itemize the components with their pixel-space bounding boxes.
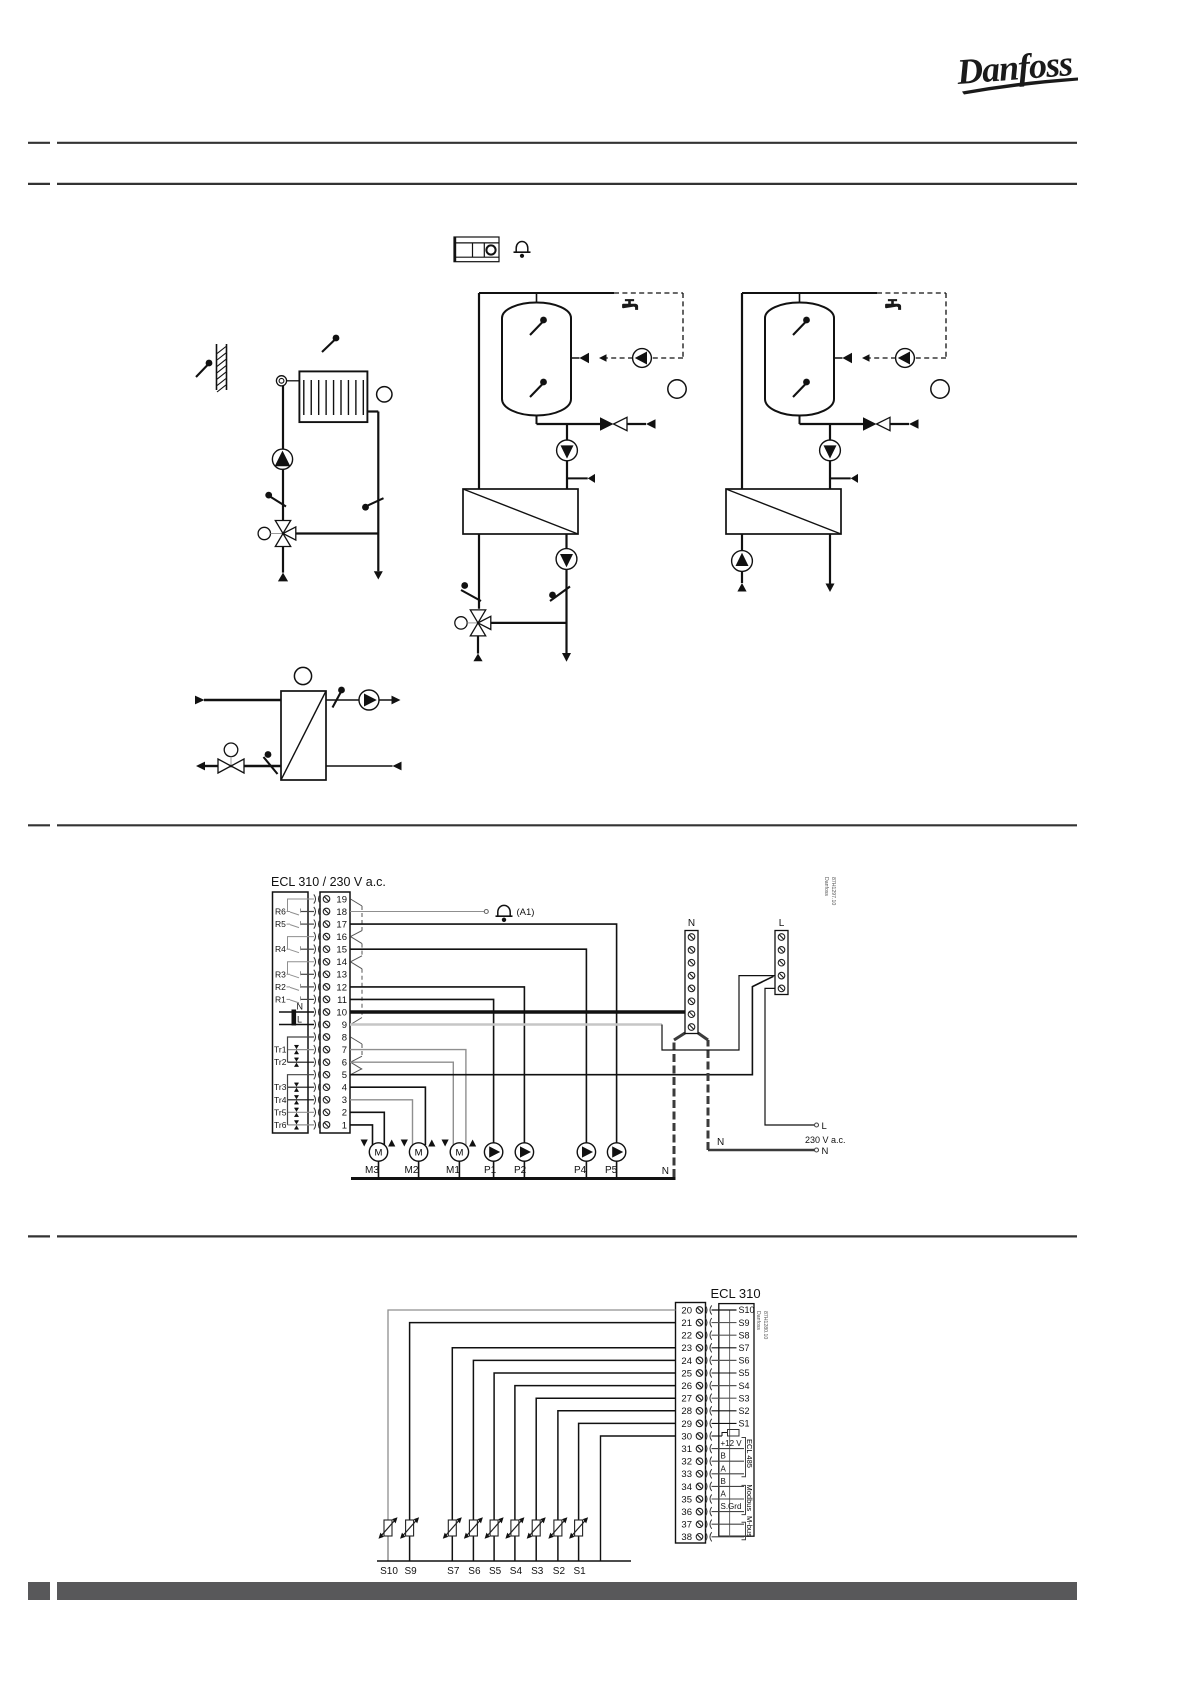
motorized 2-way valve <box>224 743 238 757</box>
sensor S7 (Pt1000) <box>451 1536 453 1561</box>
svg-text:11: 11 <box>337 995 347 1006</box>
svg-text:1: 1 <box>342 1120 347 1131</box>
sensor input S4 <box>712 1385 737 1387</box>
bus terminal 34 <box>712 1485 745 1487</box>
alarm bell icon <box>516 242 528 252</box>
wire terminal 7 to M1 <box>350 1050 466 1145</box>
flow arrow up <box>278 573 288 582</box>
svg-text:S3: S3 <box>531 1566 544 1577</box>
svg-text:Tr3: Tr3 <box>274 1082 287 1092</box>
return arrow <box>393 762 402 771</box>
primary return pipe <box>218 765 281 767</box>
motorized 3-way valve actuator <box>455 617 467 629</box>
temperature sensor <box>540 317 547 324</box>
branch arrow <box>830 477 851 479</box>
svg-text:87H1280.10: 87H1280.10 <box>762 1311 768 1339</box>
wire terminal 26 to sensor S4 <box>515 1386 676 1520</box>
terminal 18 <box>323 908 330 915</box>
terminal 10 <box>323 1009 330 1016</box>
svg-text:R2: R2 <box>275 982 286 992</box>
svg-text:S9: S9 <box>739 1318 750 1328</box>
terminal 14 <box>323 959 330 966</box>
svg-text:N: N <box>717 1137 724 1148</box>
return pipe down <box>565 534 567 653</box>
tank bottom pipe <box>799 416 801 425</box>
wire common R6 <box>288 899 315 912</box>
svg-text:R5: R5 <box>275 919 286 929</box>
svg-text:L: L <box>779 918 785 929</box>
wire terminal 3 to M2 <box>350 1100 413 1145</box>
svg-text:24: 24 <box>681 1356 692 1367</box>
service jumper terminal 30 <box>712 1435 723 1437</box>
svg-text:28: 28 <box>681 1406 692 1417</box>
N cable to mains N <box>707 1040 710 1150</box>
wire terminal 17 to P5 <box>350 924 617 1144</box>
3-way valve <box>470 610 485 623</box>
svg-text:N: N <box>688 918 695 929</box>
svg-text:23: 23 <box>681 1343 692 1354</box>
cold water supply pipe <box>741 293 743 490</box>
wire terminal 23 to sensor S7 <box>452 1348 675 1520</box>
svg-text:S4: S4 <box>739 1381 750 1391</box>
temperature sensor <box>338 687 345 694</box>
charging pump <box>820 440 841 461</box>
dashed arrow <box>599 354 607 362</box>
svg-text:37: 37 <box>681 1520 692 1531</box>
svg-text:+12 V: +12 V <box>721 1439 743 1448</box>
svg-text:R6: R6 <box>275 907 286 917</box>
wire terminal 27 to sensor S3 <box>536 1398 675 1520</box>
svg-text:S2: S2 <box>739 1406 750 1416</box>
check valve <box>600 417 614 430</box>
svg-text:Danfoss: Danfoss <box>823 877 829 896</box>
pipe to heat exchanger <box>566 424 568 490</box>
terminal 11 <box>323 996 330 1003</box>
flow arrow down <box>562 653 571 662</box>
horizontal rule 2 <box>28 183 1077 185</box>
pump P5 <box>607 1143 625 1161</box>
air vent <box>276 376 286 386</box>
N bus bar <box>351 1177 676 1180</box>
heat exchanger <box>726 489 841 534</box>
wire L-in from terminal 9 path to L rail <box>662 976 775 1050</box>
pipe below valve <box>477 636 479 654</box>
wire terminal 5 to L rail <box>350 976 774 1074</box>
svg-text:S6: S6 <box>739 1356 750 1366</box>
flow arrow down <box>826 584 835 593</box>
pipe below valve <box>282 547 284 573</box>
svg-text:36: 36 <box>681 1507 692 1518</box>
svg-text:S5: S5 <box>739 1368 750 1378</box>
horizontal rule 3 <box>28 824 1077 826</box>
wire terminal 29 to sensor S1 <box>579 1423 676 1520</box>
N cable to N rail <box>673 1040 676 1177</box>
svg-text:Modbus: Modbus <box>745 1485 754 1512</box>
svg-text:25: 25 <box>681 1368 692 1379</box>
wire terminal 10 (N) to N rail <box>350 1010 685 1014</box>
svg-text:M: M <box>455 1148 463 1159</box>
wire terminal 25 to sensor S5 <box>494 1373 675 1520</box>
controller inner box <box>719 1304 754 1537</box>
Modbus bracket <box>742 1485 746 1514</box>
svg-text:3: 3 <box>342 1095 347 1106</box>
svg-text:S8: S8 <box>739 1330 750 1340</box>
svg-text:15: 15 <box>336 945 347 956</box>
terminal strip 1-19 <box>320 892 350 1133</box>
actuator M3 <box>369 1143 387 1161</box>
svg-text:S.Grd: S.Grd <box>721 1502 742 1511</box>
terminal 5 <box>323 1071 330 1078</box>
svg-text:P4: P4 <box>574 1165 587 1176</box>
circulation pump <box>633 349 652 368</box>
svg-text:S1: S1 <box>739 1419 750 1429</box>
actuator M1 <box>450 1143 468 1161</box>
svg-text:30: 30 <box>681 1431 692 1442</box>
tank top pipe <box>536 293 538 303</box>
secondary flow pipe <box>326 699 392 701</box>
svg-text:ECL 310 / 230 V a.c.: ECL 310 / 230 V a.c. <box>271 875 386 889</box>
svg-text:21: 21 <box>681 1318 692 1329</box>
svg-text:M: M <box>415 1148 423 1159</box>
svg-text:S10: S10 <box>739 1305 755 1315</box>
temperature sensor <box>803 317 810 324</box>
wire common R4 <box>288 937 315 950</box>
terminal 17 <box>323 921 330 928</box>
M-bus bracket <box>742 1522 746 1540</box>
svg-text:31: 31 <box>681 1444 692 1455</box>
outdoor temperature sensor S1 <box>206 360 213 367</box>
temperature sensor <box>540 379 547 386</box>
ECL 485 bracket <box>742 1438 746 1477</box>
sensor input S10 <box>712 1309 737 1311</box>
svg-text:5: 5 <box>342 1070 347 1081</box>
sensor common line <box>729 1310 731 1537</box>
radiator <box>299 371 367 422</box>
svg-text:13: 13 <box>336 970 347 981</box>
terminal 7 <box>323 1046 330 1053</box>
svg-text:S2: S2 <box>553 1566 566 1577</box>
room temperature sensor <box>333 335 340 342</box>
svg-text:M3: M3 <box>365 1165 379 1176</box>
tap (DHW draw-off) <box>885 299 901 310</box>
pipe <box>491 622 567 624</box>
temperature sensor <box>362 504 369 511</box>
svg-text:S1: S1 <box>573 1566 586 1577</box>
primary supply below HX <box>741 534 743 551</box>
svg-text:N: N <box>822 1146 829 1157</box>
sensor input S6 <box>712 1359 737 1361</box>
3-way valve <box>275 521 290 534</box>
svg-text:87H1297.10: 87H1297.10 <box>830 877 836 905</box>
dashed DHW circulation line <box>614 292 683 294</box>
svg-text:12: 12 <box>336 982 347 993</box>
svg-text:N: N <box>297 1002 304 1012</box>
svg-text:14: 14 <box>336 957 347 968</box>
svg-text:6: 6 <box>342 1058 347 1069</box>
wire terminal 6 to M1 <box>350 1062 453 1145</box>
wire common R3 <box>288 962 315 975</box>
primary pump <box>732 551 753 572</box>
pipe to heat exchanger <box>829 424 831 490</box>
svg-text:R3: R3 <box>275 969 286 979</box>
sensor common bus <box>377 1560 631 1562</box>
terminal 6 <box>323 1059 330 1066</box>
cold water inlet arrow <box>627 423 646 425</box>
svg-text:Tr1: Tr1 <box>274 1045 287 1055</box>
terminal 12 <box>323 984 330 991</box>
svg-text:Tr4: Tr4 <box>274 1095 287 1105</box>
svg-text:22: 22 <box>681 1331 692 1342</box>
sensor S4 (Pt1000) <box>514 1536 516 1561</box>
pump <box>556 549 577 570</box>
bus terminal 31 <box>712 1448 745 1450</box>
wire terminal 24 to sensor S6 <box>473 1360 675 1520</box>
controller circle <box>294 667 311 684</box>
svg-text:29: 29 <box>681 1419 692 1430</box>
sensor S6 (Pt1000) <box>472 1536 474 1561</box>
svg-text:S9: S9 <box>404 1566 417 1577</box>
svg-text:9: 9 <box>342 1020 347 1031</box>
wire terminal 4 to M2 <box>350 1087 425 1145</box>
svg-text:16: 16 <box>336 932 347 943</box>
pump P1 <box>484 1143 502 1161</box>
top pipe <box>479 292 614 294</box>
terminal 13 <box>323 971 330 978</box>
svg-text:230 V a.c.: 230 V a.c. <box>805 1135 846 1145</box>
sensor S5 (Pt1000) <box>493 1536 495 1561</box>
wire terminal 28 to sensor S2 <box>558 1411 676 1520</box>
svg-text:M2: M2 <box>405 1165 419 1176</box>
motorized 3-way valve actuator <box>258 527 270 539</box>
outside wall (hatched) <box>216 344 218 390</box>
svg-text:17: 17 <box>336 920 347 931</box>
svg-text:R1: R1 <box>275 994 286 1004</box>
svg-text:Tr5: Tr5 <box>274 1107 287 1117</box>
tap (DHW draw-off) <box>622 299 638 310</box>
heat exchanger <box>463 489 578 534</box>
return pipe <box>367 410 378 412</box>
svg-text:M: M <box>375 1148 383 1159</box>
svg-text:4: 4 <box>342 1083 347 1094</box>
svg-text:B: B <box>721 1477 726 1486</box>
sensor S10 (Pt1000) <box>387 1536 389 1561</box>
svg-text:(A1): (A1) <box>517 907 535 918</box>
svg-text:A: A <box>721 1490 727 1499</box>
dashed arrow <box>862 354 870 362</box>
sensor input S7 <box>712 1347 737 1349</box>
svg-text:B: B <box>721 1452 726 1461</box>
secondary pump <box>359 690 379 710</box>
ECL controller icon <box>454 237 499 262</box>
sensor S1 (Pt1000) <box>578 1536 580 1561</box>
svg-text:L: L <box>822 1121 827 1132</box>
temperature sensor <box>265 492 272 499</box>
bus terminal 38 <box>712 1536 745 1538</box>
wire terminal 30 to sensor common bus <box>601 1436 676 1561</box>
flow arrow right <box>392 696 401 705</box>
Danfoss logo <box>954 43 1078 94</box>
flow arrow up <box>473 654 482 662</box>
sensor input S9 <box>712 1322 737 1324</box>
sensor input S1 <box>712 1422 737 1424</box>
wire terminal 15 to P4 <box>350 949 586 1144</box>
svg-text:S3: S3 <box>739 1393 750 1403</box>
tank bottom pipe <box>536 416 538 425</box>
svg-text:P1: P1 <box>484 1165 497 1176</box>
svg-text:8: 8 <box>342 1032 347 1043</box>
svg-text:Tr2: Tr2 <box>274 1057 287 1067</box>
terminal 15 <box>323 946 330 953</box>
district heating supply below HX <box>478 534 480 609</box>
svg-text:S7: S7 <box>447 1566 460 1577</box>
controller circle <box>931 380 949 398</box>
horizontal rule 1 <box>28 142 1077 144</box>
sensor S2 (Pt1000) <box>557 1536 559 1561</box>
supply pipe <box>282 386 284 450</box>
svg-text:S10: S10 <box>380 1566 398 1577</box>
terminal 8 <box>323 1034 330 1041</box>
svg-text:Tr6: Tr6 <box>274 1120 287 1130</box>
primary supply arrow <box>195 696 205 705</box>
terminal 2 <box>323 1109 330 1116</box>
wire terminal 12 to P2 <box>350 987 524 1144</box>
svg-text:M-bus: M-bus <box>745 1516 754 1537</box>
secondary return pipe <box>326 765 393 767</box>
wire L rail to mains L <box>765 988 814 1125</box>
actuator M2 <box>409 1143 427 1161</box>
wire terminal 18 to alarm bell A1 <box>350 911 484 913</box>
cold water supply pipe <box>478 293 480 490</box>
terminal 19 <box>323 896 330 903</box>
terminal 16 <box>323 933 330 940</box>
top pipe <box>742 292 877 294</box>
wire <box>282 469 284 520</box>
footer bar <box>28 1582 50 1600</box>
svg-text:Danfoss: Danfoss <box>755 1311 761 1330</box>
bus terminal 35 <box>712 1498 745 1500</box>
L rail terminal strip <box>775 931 788 995</box>
triac common brackets <box>288 1037 315 1062</box>
cold water inlet arrow <box>890 423 909 425</box>
svg-text:2: 2 <box>342 1108 347 1119</box>
controller internal block <box>273 892 309 1133</box>
pump P2 <box>515 1143 533 1161</box>
dashed DHW circulation line <box>877 292 946 294</box>
wire terminal 1 to M3 <box>350 1125 373 1145</box>
horizontal rule 4 <box>28 1235 1077 1237</box>
terminal 4 <box>323 1084 330 1091</box>
bus terminal 37 <box>712 1523 745 1525</box>
svg-text:S7: S7 <box>739 1343 750 1353</box>
terminal strip 20-38 <box>676 1303 706 1544</box>
terminal 3 <box>323 1097 330 1104</box>
charging pump <box>557 440 578 461</box>
sensor S9 (Pt1000) <box>409 1536 411 1561</box>
svg-text:7: 7 <box>342 1045 347 1056</box>
room panel circle <box>377 387 392 402</box>
heat exchanger <box>281 691 326 780</box>
svg-text:A: A <box>721 1464 727 1473</box>
svg-text:26: 26 <box>681 1381 692 1392</box>
svg-text:M1: M1 <box>446 1165 460 1176</box>
svg-text:32: 32 <box>681 1457 692 1468</box>
primary supply pipe <box>204 699 281 701</box>
svg-text:18: 18 <box>336 907 347 918</box>
bus terminal 32 <box>712 1460 745 1462</box>
flow arrow up <box>737 583 746 592</box>
sensor input S3 <box>712 1397 737 1399</box>
svg-text:ECL 485: ECL 485 <box>745 1439 754 1468</box>
wire terminal 9 (L) <box>350 1023 662 1026</box>
svg-text:34: 34 <box>681 1482 692 1493</box>
controller circle <box>668 380 686 398</box>
pipe to return <box>296 532 379 534</box>
temperature sensor <box>803 379 810 386</box>
sensor S3 (Pt1000) <box>535 1536 537 1561</box>
temperature sensor <box>549 592 556 599</box>
wire terminal 21 to sensor S9 <box>410 1323 676 1520</box>
branch arrow <box>567 477 588 479</box>
terminal 9 <box>323 1021 330 1028</box>
bus terminal 36 <box>712 1511 745 1513</box>
svg-text:P5: P5 <box>605 1165 618 1176</box>
temperature sensor <box>461 582 468 589</box>
pipe + arrow out <box>205 765 218 767</box>
flow arrow down <box>374 571 383 579</box>
svg-text:38: 38 <box>681 1532 692 1543</box>
circulation pump P <box>272 449 292 469</box>
svg-text:ECL 310: ECL 310 <box>711 1286 761 1301</box>
alarm bell A1 <box>498 905 510 915</box>
svg-text:20: 20 <box>681 1305 692 1316</box>
DHW storage tank <box>765 303 834 416</box>
svg-text:N: N <box>662 1166 669 1177</box>
terminal bridge dashed bracket <box>351 899 363 906</box>
circulation pump <box>896 349 915 368</box>
svg-text:S5: S5 <box>489 1566 502 1577</box>
temperature sensor <box>265 751 272 758</box>
sensor input S8 <box>712 1334 737 1336</box>
svg-text:L: L <box>297 1015 302 1025</box>
svg-text:35: 35 <box>681 1494 692 1505</box>
svg-text:27: 27 <box>681 1394 692 1405</box>
wire terminal 11 to P1 <box>350 999 494 1144</box>
N rail terminal strip <box>685 931 698 1034</box>
svg-text:33: 33 <box>681 1469 692 1480</box>
pump P4 <box>577 1143 595 1161</box>
svg-text:R4: R4 <box>275 944 286 954</box>
tank inlet arrow <box>571 357 579 359</box>
svg-text:S4: S4 <box>510 1566 523 1577</box>
bus terminal 33 <box>712 1473 745 1475</box>
tank inlet arrow <box>834 357 842 359</box>
check valve <box>863 417 877 430</box>
primary return down <box>829 534 831 584</box>
DHW storage tank <box>502 303 571 416</box>
sensor input S2 <box>712 1410 737 1412</box>
svg-text:19: 19 <box>336 894 347 905</box>
terminal 1 <box>323 1122 330 1129</box>
svg-text:S6: S6 <box>468 1566 481 1577</box>
svg-text:10: 10 <box>336 1007 347 1018</box>
wire terminal 20 to sensor S10 <box>388 1310 676 1520</box>
wire terminal 2 to M3 <box>350 1112 384 1145</box>
tank top pipe <box>799 293 801 303</box>
sensor input S5 <box>712 1372 737 1374</box>
